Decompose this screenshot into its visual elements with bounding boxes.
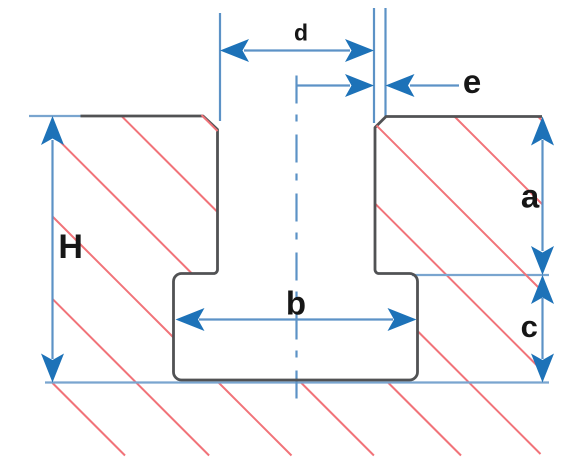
dimension e left line xyxy=(297,84,351,86)
dimension d left arrowhead xyxy=(220,39,249,62)
dimension e left arrowhead xyxy=(345,74,374,97)
e right extension line xyxy=(384,8,386,116)
hatch below surface xyxy=(219,383,462,456)
dimension H top arrowhead xyxy=(41,116,64,145)
dimension e right line xyxy=(410,84,459,86)
centerline xyxy=(295,76,297,410)
dimension d right arrowhead xyxy=(345,39,374,62)
svg-text:a: a xyxy=(521,178,540,215)
dimension b left arrowhead xyxy=(176,308,205,331)
dimension d line xyxy=(244,49,350,51)
dimension e right arrowhead xyxy=(386,74,415,97)
svg-text:b: b xyxy=(286,284,306,321)
dimension c bottom arrowhead xyxy=(531,354,554,383)
dimension H line xyxy=(51,140,53,359)
dimension H bottom arrowhead xyxy=(41,354,64,383)
step right extension line xyxy=(412,274,549,276)
dimension a top arrowhead xyxy=(531,117,554,146)
svg-text:H: H xyxy=(58,228,83,266)
hatch right block xyxy=(375,116,543,454)
H top extension line xyxy=(29,115,81,117)
svg-text:e: e xyxy=(463,63,481,100)
dimension a bottom arrowhead xyxy=(531,246,554,275)
dimension b right arrowhead xyxy=(388,308,417,331)
dimension a line xyxy=(541,140,543,251)
svg-text:c: c xyxy=(521,309,538,344)
dimension b line xyxy=(199,318,393,320)
surface extension line xyxy=(45,381,549,383)
d right extension line xyxy=(373,8,375,123)
dimension c top arrowhead xyxy=(531,275,554,304)
hatch left block xyxy=(53,116,218,456)
d left extension line xyxy=(219,13,221,121)
dimension c line xyxy=(541,298,543,359)
profile outline xyxy=(81,116,543,380)
svg-text:d: d xyxy=(294,20,308,46)
hatch line over left chamfer xyxy=(202,115,218,131)
hatch line from right chamfer xyxy=(377,126,543,292)
